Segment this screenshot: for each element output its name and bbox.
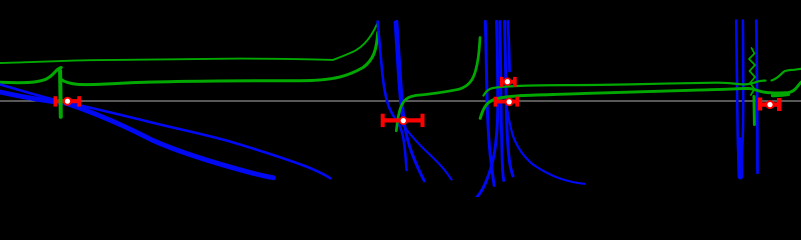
blue curve: mid event peak left branch — [378, 21, 407, 170]
green curve: mid S through marker rising to spike — [396, 38, 480, 131]
green curve: left event right branch plateau — [61, 33, 378, 85]
blue curve: right cluster vertical 2 with bottom-left branch — [477, 21, 498, 197]
white data point M5 — [767, 102, 772, 107]
blue curve: right cluster branch to lower right — [506, 98, 585, 184]
blue curve: right cluster vertical 5 short — [508, 21, 510, 71]
white data point M4 — [507, 99, 512, 104]
blue curve: right cluster vertical 3 — [500, 21, 504, 180]
blue curve: mid fan shallow line — [403, 125, 452, 180]
green curve: thin upper left line rising off top — [0, 22, 378, 63]
blue curve: left fan lower double line — [0, 92, 274, 178]
blue curve: mid event main steep line — [397, 21, 425, 180]
blue curve: left fan upper line — [0, 85, 331, 179]
blue curve: right cluster vertical 1 — [485, 21, 494, 185]
gray zero line — [0, 100, 801, 102]
blue curve: right cluster vertical 4 — [505, 21, 513, 176]
blue curve: far right single vertical — [756, 21, 757, 173]
green curve: thick left line with hook peak — [0, 68, 61, 83]
red marker M3 error bar — [502, 77, 515, 87]
blue curve: far right vertical pair line b — [741, 21, 744, 177]
green curve: right lower branch long line — [480, 82, 801, 118]
white data point M3 — [505, 79, 510, 84]
white data point M2 — [401, 118, 406, 123]
red marker M4 error bar — [495, 97, 517, 107]
red marker M5 error bar — [760, 98, 780, 112]
red marker M2 error bar — [383, 114, 423, 127]
green curve: right upper gentle line — [484, 69, 801, 96]
green thick patch right of M5 — [773, 94, 789, 95]
green vertical over left marker — [58, 71, 63, 117]
green zigzag at right event — [749, 48, 755, 95]
blue curve: far right vertical pair line a — [736, 21, 740, 178]
red marker M1 error bar — [55, 96, 79, 106]
white data point M1 — [65, 99, 70, 104]
blue curve: mid event inner thickener — [395, 22, 403, 119]
green vertical at right event below line — [752, 97, 755, 125]
blue pair merged bottom — [737, 140, 744, 177]
